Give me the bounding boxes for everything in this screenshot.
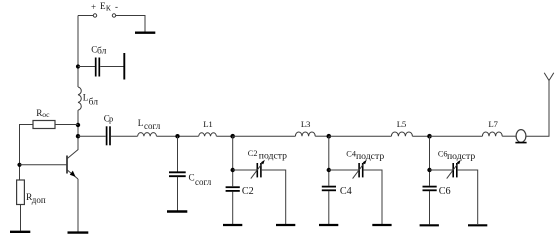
wire to C6 trimmer xyxy=(430,169,453,171)
svg-text:L7: L7 xyxy=(488,119,498,129)
svg-text:С: С xyxy=(189,172,195,182)
wire L1 to node1 xyxy=(216,135,232,137)
inductor Lbl xyxy=(78,87,81,110)
wire C2 trimmer to ground xyxy=(262,170,286,224)
inductor L1 xyxy=(199,133,217,136)
wire C6 trimmer to ground xyxy=(458,170,478,224)
wire L3 to node2 xyxy=(315,135,329,137)
wire collector to Cp xyxy=(78,135,106,137)
wire supply right xyxy=(116,16,145,32)
node 3 xyxy=(427,134,432,139)
capacitor Cp xyxy=(107,126,110,145)
wire Lsogl to L1 xyxy=(157,135,199,137)
capacitor C6 xyxy=(423,187,437,191)
svg-text:бл: бл xyxy=(89,96,99,107)
svg-text:подстр: подстр xyxy=(447,151,475,162)
svg-text:С6: С6 xyxy=(439,186,451,197)
svg-text:согл: согл xyxy=(144,121,161,131)
wire to C4 trimmer xyxy=(329,169,359,171)
capacitor C4 trimmer xyxy=(353,160,367,179)
wire Roc to collector xyxy=(55,124,78,126)
ground C6 trimmer xyxy=(468,224,487,226)
terminal +Ek xyxy=(93,14,96,17)
wire supply left xyxy=(78,15,93,17)
node 1 xyxy=(230,134,235,139)
value label Rdop xyxy=(26,193,46,205)
node Ek label xyxy=(91,1,118,13)
wire C2 branch xyxy=(232,136,234,186)
node C6 trimmer junction xyxy=(427,168,431,172)
capacitor Cbl xyxy=(96,58,100,77)
wire feedback branch xyxy=(20,125,34,181)
antenna WA1 xyxy=(544,73,554,81)
node C2 trimmer junction xyxy=(231,168,235,172)
ground C4 xyxy=(319,224,338,226)
wire collector rail xyxy=(77,16,79,88)
capacitor C2 xyxy=(226,187,240,191)
value label C2 podstr xyxy=(248,149,287,161)
wire C4 trimmer to ground xyxy=(364,170,382,224)
ground C6 xyxy=(420,224,439,226)
svg-text:L: L xyxy=(138,118,144,128)
node Csogl junction xyxy=(175,134,179,138)
value label C6 podstr xyxy=(438,149,475,162)
wire Cbl right xyxy=(100,66,123,68)
node collector-Cbl junction xyxy=(76,64,80,68)
inductor L3 xyxy=(295,132,315,136)
svg-text:доп: доп xyxy=(32,195,46,205)
wire Csogl to ground xyxy=(177,177,179,211)
wire node3 to L7 xyxy=(430,135,483,137)
wire connector to antenna xyxy=(526,81,549,137)
wire emitter to ground xyxy=(77,179,79,232)
svg-text:+: + xyxy=(91,2,96,12)
node C4 trimmer junction xyxy=(327,168,331,172)
wire Cp to Lsogl xyxy=(111,135,138,137)
inductor L5 xyxy=(391,132,412,136)
wire C4 to ground xyxy=(328,191,330,224)
svg-text:ос: ос xyxy=(42,110,50,119)
value label Lbl xyxy=(83,93,98,108)
wire Lbl to collector xyxy=(77,110,79,150)
capacitor C4 xyxy=(322,187,336,191)
ground C2 trimmer xyxy=(276,224,295,226)
value label Roc xyxy=(36,108,50,119)
capacitor C6 trimmer xyxy=(447,160,461,179)
value label Csogl xyxy=(189,172,212,187)
transistor VT1 xyxy=(67,150,78,179)
ground Rdop xyxy=(10,231,30,233)
svg-text:С2: С2 xyxy=(248,149,258,158)
value label C4 podstr xyxy=(346,149,384,161)
ground C2 xyxy=(223,224,242,226)
node 2 xyxy=(327,134,332,139)
ground Csogl xyxy=(167,210,187,212)
svg-text:L3: L3 xyxy=(301,119,311,129)
ground Cbl terminal bar xyxy=(123,53,125,80)
wire node2 to L5 xyxy=(329,135,392,137)
wire C4 branch xyxy=(328,136,330,186)
wire Rdop to ground xyxy=(20,205,22,231)
value label Cp xyxy=(104,114,114,124)
svg-text:С4: С4 xyxy=(340,186,352,197)
inductor Lsogl xyxy=(138,133,157,137)
wire base xyxy=(20,164,67,166)
svg-text:бл: бл xyxy=(97,46,107,57)
svg-text:согл: согл xyxy=(195,177,212,187)
wire node1 to L3 xyxy=(233,135,296,137)
svg-text:р: р xyxy=(109,114,113,124)
svg-text:подстр: подстр xyxy=(259,150,287,161)
value label Cbl xyxy=(91,45,106,57)
svg-text:-: - xyxy=(115,2,118,12)
node base junction xyxy=(17,163,21,167)
svg-text:L5: L5 xyxy=(397,119,407,129)
svg-text:L1: L1 xyxy=(203,119,212,129)
capacitor Csogl xyxy=(169,172,186,176)
ground emitter xyxy=(68,231,89,233)
resistor Rdop xyxy=(17,180,25,205)
wire L7 to connector xyxy=(502,135,516,137)
node collector output junction xyxy=(76,134,80,138)
resistor Roc xyxy=(33,121,55,129)
wire L5 to node3 xyxy=(412,135,429,137)
wire C2 to ground xyxy=(232,192,234,225)
node Roc-rail junction xyxy=(76,123,80,127)
capacitor C2 trimmer xyxy=(251,160,265,179)
svg-text:подстр: подстр xyxy=(356,151,384,162)
connector XW1 xyxy=(515,130,526,143)
ground C4 trimmer xyxy=(372,224,391,226)
wire Csogl drop xyxy=(177,136,179,171)
wire Cbl left xyxy=(78,66,95,68)
wire to C2 trimmer xyxy=(233,169,257,171)
inductor L7 xyxy=(482,132,502,136)
wire C6 to ground xyxy=(429,191,431,224)
terminal -Ek xyxy=(112,14,115,17)
value label Lsogl xyxy=(138,118,161,131)
wire C6 branch xyxy=(429,136,431,186)
ground supply xyxy=(135,32,155,34)
svg-text:С2: С2 xyxy=(242,186,254,197)
